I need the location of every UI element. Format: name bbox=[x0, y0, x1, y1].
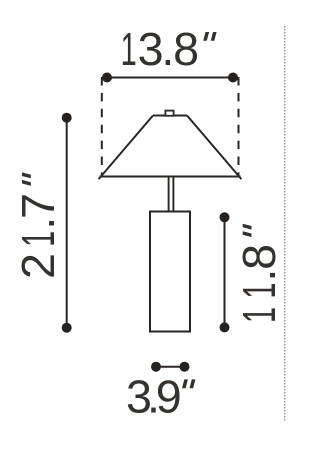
svg-text:1: 1 bbox=[234, 307, 286, 323]
svg-text:1: 1 bbox=[234, 282, 286, 298]
svg-text:9: 9 bbox=[156, 370, 182, 422]
svg-text:2: 2 bbox=[12, 253, 64, 279]
svg-text:8: 8 bbox=[173, 23, 199, 75]
svg-text:7: 7 bbox=[12, 193, 64, 219]
svg-text:1: 1 bbox=[13, 231, 65, 247]
svg-text:8: 8 bbox=[233, 244, 285, 270]
svg-text:1: 1 bbox=[121, 24, 137, 76]
svg-text:3: 3 bbox=[138, 23, 164, 75]
